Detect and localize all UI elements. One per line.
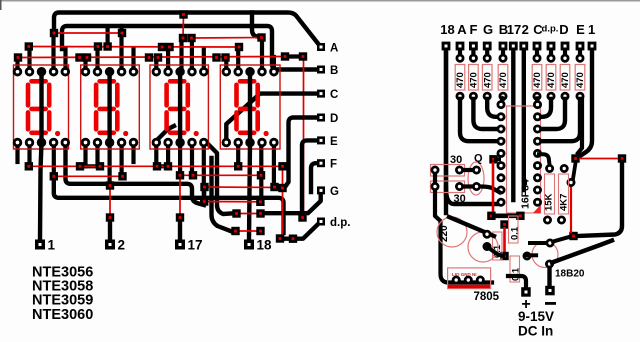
pad J13 — [14, 53, 22, 61]
pad TA — [456, 42, 465, 51]
pad d.p. — [317, 218, 325, 226]
resistor R2 470 — [469, 50, 480, 99]
pad C1 right — [456, 167, 462, 173]
wire junction up to T2 — [105, 28, 109, 47]
wire top bus A (trace T1) — [54, 13, 318, 44]
svg-text:9-15V: 9-15V — [518, 309, 554, 324]
svg-text:470: 470 — [469, 72, 480, 88]
pad J7 — [25, 42, 33, 50]
resistor R3 470 — [482, 50, 493, 99]
wire red R3 — [205, 186, 283, 189]
resistor R7 470 — [560, 50, 571, 99]
pin 10 of U1 (right) — [534, 199, 540, 205]
wire E-col branch to pad — [578, 100, 582, 153]
wire digit3 pin5 up — [202, 49, 206, 72]
wire red MCLR down — [492, 162, 495, 212]
pad 18 — [244, 240, 254, 250]
pad Pe — [200, 197, 208, 205]
wire digit1 pinB2 down — [27, 143, 31, 167]
wire ic to 15K — [539, 154, 549, 164]
svg-text:D: D — [559, 22, 568, 37]
pad K7 — [278, 162, 286, 170]
wire bus H2 — [54, 178, 284, 233]
wire digit4 pin2 up — [236, 47, 240, 72]
display DIS4 (7-segment) — [220, 65, 280, 149]
svg-text:18: 18 — [257, 238, 273, 253]
pad K5 — [164, 162, 172, 170]
pad J2 — [118, 29, 126, 37]
pad TE — [576, 42, 585, 51]
wire red R4 — [204, 201, 260, 203]
svg-text:0.1: 0.1 — [510, 226, 521, 240]
capacitor C4 0.1 — [509, 216, 519, 243]
wire digit2 pinB1 down — [83, 143, 87, 167]
wire resistor 460 to IC pin — [460, 99, 498, 141]
wire red net3 top — [29, 46, 239, 49]
svg-text:4K7: 4K7 — [559, 194, 570, 211]
pad TF — [469, 42, 478, 51]
wire digit3 pinB2 down — [166, 143, 170, 167]
pad R3n — [569, 232, 577, 240]
wire col18 to IC gnd pin — [446, 188, 497, 204]
pin 2 of U3 — [547, 240, 553, 246]
pad R2n — [618, 154, 626, 162]
svg-text:NTE3060: NTE3060 — [32, 307, 93, 323]
wire sensor pin3 to minus — [547, 268, 551, 287]
sensor U3 18B20 outline — [532, 242, 558, 268]
pin 13 of U1 (right) — [534, 163, 540, 169]
wire red R6 — [236, 230, 261, 232]
wire dc plus in — [508, 276, 526, 288]
pad Tdp — [547, 42, 556, 51]
pad Pi — [231, 227, 239, 235]
svg-text:15K: 15K — [544, 193, 555, 211]
svg-text:30: 30 — [450, 154, 462, 166]
pad J4 — [179, 34, 187, 42]
svg-text:470: 470 — [455, 72, 466, 88]
wire pad F trace — [311, 163, 318, 192]
wire pad D trace — [285, 118, 318, 188]
capacitor C6 220uF outline — [437, 217, 467, 247]
pad C — [317, 90, 325, 98]
wire caps gnd to 7805 — [435, 170, 492, 283]
wire digit3 pin1 up — [154, 58, 158, 72]
pin 6 of U1 (left) — [498, 163, 504, 169]
pin 1 of U2 — [453, 277, 459, 283]
wire crystal bottom bar — [460, 187, 500, 193]
wire to pad C through digit4 — [226, 94, 318, 143]
svg-text:470: 470 — [532, 72, 543, 88]
wire digit4 pinB5 down — [272, 143, 276, 184]
svg-text:470: 470 — [482, 72, 493, 88]
pin 12 of U1 (right) — [534, 175, 540, 181]
pad K10 — [176, 171, 184, 179]
wire digit1 pinB4 down — [52, 143, 56, 177]
svg-text:E: E — [330, 136, 338, 148]
pad TD — [561, 42, 570, 51]
wire red right pair — [579, 158, 618, 160]
wire digit2 pin4 up to T2 — [119, 26, 123, 72]
wire digit2 pinB5 down — [131, 143, 135, 163]
wire digit2 pinB2 down — [95, 143, 99, 167]
pin 3 of U1 (left) — [498, 126, 504, 132]
wire elbow to Pi — [212, 158, 231, 231]
svg-text:18: 18 — [440, 22, 454, 37]
wire digit1 pin1 up — [15, 58, 19, 72]
pad DC+ — [521, 287, 531, 297]
wire red pad17 link — [179, 175, 181, 217]
wire digit3 pin3 up — [179, 38, 183, 72]
wire digit1 pinB1 down — [15, 143, 19, 163]
svg-text:1: 1 — [588, 22, 595, 37]
pin 2 of U1 (left) — [498, 114, 504, 120]
wire digit2 center vertical — [107, 72, 111, 143]
pad TB — [499, 42, 508, 51]
pin 3 of U2 — [477, 277, 483, 283]
wire pad dp trace — [284, 222, 321, 239]
pin 15 of U1 (right) — [534, 138, 540, 144]
pad J18 — [212, 53, 220, 61]
svg-text:B: B — [330, 65, 338, 77]
pad J1 — [50, 29, 58, 37]
pin 2 of U2 — [465, 277, 471, 283]
wire digit3 pin4 up — [190, 38, 194, 72]
pad J16 — [145, 53, 153, 61]
wire red net1 top — [54, 32, 122, 34]
pad R1n — [571, 154, 579, 162]
wire resistor B to IC pin1 — [501, 99, 503, 104]
svg-text:2: 2 — [522, 22, 529, 37]
pad TG — [483, 42, 492, 51]
pad 2 — [105, 240, 115, 250]
wire resistor 473.4 to IC pin — [473, 99, 498, 129]
resistor R9 15K — [544, 165, 555, 223]
pad dp-link — [289, 235, 297, 243]
wire col2 down — [522, 50, 526, 190]
wire digit3 pinB4 down — [190, 143, 194, 176]
pad N1 — [484, 231, 490, 237]
wire short diagonal digit3 — [157, 126, 174, 140]
resistor R4 470 — [498, 50, 509, 99]
wire sensor pin2 to pad — [553, 237, 569, 242]
wire red from top pad down — [182, 15, 185, 39]
pad T1 — [588, 42, 597, 51]
display DIS1 (7-segment) — [14, 65, 69, 149]
regulator U2 7805 outline — [448, 268, 491, 289]
pad J8 — [94, 42, 102, 50]
wire link bar — [80, 164, 100, 168]
svg-text:1: 1 — [48, 238, 56, 253]
wire elbow to Pg — [208, 144, 231, 214]
wire N2 to M4 — [487, 247, 503, 257]
wire digit2 pinB4 down — [119, 143, 123, 177]
pad 1 — [35, 240, 45, 250]
wire crystal top bar — [460, 168, 477, 172]
pad B — [317, 66, 325, 74]
wire digit4 pin4 up — [260, 38, 264, 72]
wire digit4 pin5 up — [272, 57, 276, 72]
wire digit3 pinB5 down to pads — [202, 143, 206, 199]
wire red R2a — [54, 175, 123, 177]
pin 11 of U1 (right) — [534, 187, 540, 193]
svg-text:470: 470 — [546, 72, 557, 88]
svg-text:F: F — [470, 22, 478, 37]
pad K6 — [234, 162, 242, 170]
pad J3 top — [179, 10, 187, 18]
wire col18 down — [444, 50, 448, 195]
display DIS2 (7-segment) — [81, 65, 140, 149]
wire digit1 pin4 up — [51, 33, 55, 72]
wire resistor 487.2 to IC pin — [487, 99, 498, 117]
capacitor C5 0.1 — [510, 256, 520, 282]
svg-text:F: F — [330, 159, 337, 171]
op-amp U1 16F84 outline — [507, 106, 541, 213]
pin 16 of U1 (right) — [534, 126, 540, 132]
wire red pad2 link — [109, 186, 111, 218]
wire digit2 pinB3 down — [107, 143, 111, 186]
pad Pg — [232, 209, 240, 217]
pad Pf — [256, 198, 264, 206]
wire link bar2 — [157, 164, 168, 168]
wire red bus R1 — [29, 165, 283, 167]
wire resistor 565 to IC pin right — [541, 99, 565, 129]
pad 17 — [175, 240, 185, 250]
svg-text:G: G — [330, 186, 339, 198]
wire red right vertical — [570, 185, 572, 233]
svg-text:2: 2 — [118, 238, 126, 253]
wire red R5 — [237, 213, 261, 215]
pad TC — [533, 42, 542, 51]
pad J11 — [165, 43, 173, 51]
pad J5 — [187, 34, 195, 42]
display DIS3 (7-segment) — [150, 65, 208, 149]
wire pad2 riser — [108, 221, 112, 240]
pad Pa — [200, 183, 208, 191]
wire red long vertical to dp node — [303, 57, 305, 219]
pad K4 — [153, 162, 161, 170]
pin 3 of U3 — [546, 261, 552, 267]
svg-text:17: 17 — [507, 22, 521, 37]
wire pad17 riser — [178, 221, 182, 240]
wire pad down to ring — [573, 163, 576, 179]
pad Pk — [276, 234, 284, 242]
pin 17 of U1 (right) — [534, 114, 540, 120]
pad J19 — [221, 53, 229, 61]
pad Q1 top — [473, 167, 479, 173]
pad K8 — [50, 172, 58, 180]
wire pad to pin — [496, 157, 499, 161]
pad K14 — [106, 213, 114, 221]
pad D — [317, 114, 325, 122]
resistor R1 470 — [455, 50, 466, 99]
wire red net2 top — [192, 37, 262, 40]
pad DC- — [545, 286, 555, 296]
pin 9 of U1 (left) — [498, 199, 504, 205]
wire resistor C to IC pin18 — [535, 99, 540, 104]
svg-text:220: 220 — [439, 225, 450, 242]
pad Q1 bottom — [473, 183, 479, 189]
wire link pads top right — [285, 54, 303, 58]
wire digit3 center vertical — [178, 72, 182, 143]
wire pad G trace — [266, 194, 321, 213]
border top edge — [0, 0, 640, 2]
wire link M1-M2 — [494, 214, 518, 219]
wire digit4 common to pad 18 — [249, 72, 250, 240]
wire link Pa-Pe — [202, 187, 206, 202]
wire digit1 common to pad 1 — [40, 72, 42, 240]
pad J17 — [154, 53, 162, 61]
wire digit3 pinB1 down — [154, 143, 158, 167]
svg-text:30: 30 — [454, 193, 466, 205]
pad M1 — [487, 212, 495, 220]
pin 8 of U1 (left) — [498, 187, 504, 193]
pad J14 — [75, 53, 83, 61]
wire digit1 pin2 up — [27, 47, 31, 72]
wire pad E trace — [302, 140, 318, 213]
wire digit2 pin1 up — [83, 58, 87, 72]
wire bus H1 — [66, 143, 205, 206]
svg-text:LIO GND NI: LIO GND NI — [452, 272, 477, 277]
pad K13 — [106, 181, 114, 189]
svg-text:d.p.: d.p. — [542, 24, 559, 35]
pad MCLR — [489, 155, 497, 163]
resistor R10 4K7 — [558, 165, 569, 223]
wire sensor diagonal up right — [552, 241, 612, 263]
crystal Q1 outline — [468, 162, 484, 195]
label minus — [545, 302, 556, 305]
pad K3 — [96, 162, 104, 170]
pad J10 — [158, 43, 166, 51]
wire digit2 pin2 up — [95, 47, 99, 72]
svg-text:DC In: DC In — [518, 324, 553, 339]
pad Pc — [278, 184, 286, 192]
wire col1 elbow to pad — [580, 50, 592, 156]
pad ring R — [568, 179, 574, 185]
pad M4 — [500, 252, 508, 260]
pad G — [317, 186, 325, 194]
svg-text:G: G — [483, 22, 493, 37]
pad K9 — [118, 172, 126, 180]
svg-text:7805: 7805 — [474, 291, 500, 303]
pad J20 — [281, 52, 289, 60]
wire red R2b — [180, 174, 261, 176]
capacitor C7 outline — [468, 232, 498, 262]
pin 4 of U1 (left) — [498, 138, 504, 144]
svg-text:470: 470 — [575, 72, 586, 88]
svg-text:E: E — [576, 22, 585, 37]
resistor R8 470 — [575, 50, 586, 99]
pin 1 of U1 (left) — [498, 102, 504, 108]
pin 7 of U1 (left) — [498, 175, 504, 181]
pad T2 — [519, 42, 528, 51]
pad J21 — [299, 52, 307, 60]
svg-text:A: A — [457, 22, 467, 37]
svg-text:Q: Q — [474, 153, 483, 165]
svg-text:16F84: 16F84 — [520, 179, 532, 209]
svg-text:d.p.: d.p. — [330, 217, 350, 229]
resistor R5 470 — [532, 50, 543, 99]
pad F — [317, 159, 325, 167]
pad Pd — [298, 213, 306, 221]
pin 18 of U1 (right) — [534, 102, 540, 108]
pad K15 — [176, 213, 184, 221]
wire digit4 pinB2 down — [236, 143, 240, 167]
pad M2 — [516, 212, 524, 220]
pad C2 left — [432, 183, 438, 189]
wire digit3 pin2 up — [166, 47, 170, 72]
svg-text:18B20: 18B20 — [555, 269, 585, 280]
pad A — [317, 43, 325, 51]
pad M3 — [500, 220, 508, 228]
pad T17 — [509, 42, 518, 51]
wire digit2 pin5 up — [131, 49, 135, 72]
wire sensor pin2 lead — [530, 241, 545, 245]
wire digit4 pinB4 down — [259, 143, 263, 200]
wire diagonal across cap — [449, 217, 494, 236]
capacitor C2 30pF — [431, 181, 465, 193]
svg-text:17: 17 — [188, 238, 203, 253]
wire col18 lower — [444, 50, 448, 213]
wire digit1 pin5 up — [63, 49, 67, 72]
pad E — [317, 136, 325, 144]
svg-text:D: D — [330, 113, 338, 125]
wire red net4 top — [18, 57, 285, 58]
pad J9 — [103, 42, 111, 50]
pin 5 of U1 (left) — [498, 150, 504, 156]
pad J12 — [235, 43, 243, 51]
pad K2 — [76, 162, 84, 170]
wire sensor link — [526, 253, 537, 257]
wire digit3 pinB3 down — [178, 143, 182, 176]
wire top bus B (trace T2) — [62, 26, 318, 70]
svg-text:470: 470 — [560, 72, 571, 88]
pad Ph — [256, 209, 264, 217]
pin 1 of U3 — [524, 253, 530, 259]
wire resistor 580 to IC pin right — [541, 99, 580, 141]
wire col17 down — [511, 50, 515, 200]
wire resistor 551 to IC pin right — [541, 99, 551, 117]
svg-text:A: A — [330, 43, 338, 55]
pad K1 — [25, 162, 33, 170]
capacitor C3 0.1 — [493, 232, 503, 260]
svg-text:C: C — [330, 89, 338, 101]
resistor R6 470 — [546, 50, 557, 99]
pad C2 right — [456, 183, 462, 189]
pad Pj — [256, 227, 264, 235]
wire right edge elbow down — [578, 162, 622, 236]
pad J6 — [257, 33, 265, 41]
pad Pb — [270, 183, 278, 191]
pad K12 — [257, 171, 265, 179]
wire branch to pad from T1 — [252, 13, 260, 38]
wire digit4 pin1 up — [224, 58, 228, 72]
wire red M3 down — [503, 227, 506, 253]
wire red vertical to dp node — [282, 166, 284, 238]
pad N2 — [484, 243, 490, 249]
pad K11 — [189, 171, 197, 179]
svg-text:470: 470 — [498, 72, 509, 88]
pad C1 left — [432, 167, 438, 173]
pad T18 — [442, 42, 451, 51]
wire red 7805 tab — [448, 285, 490, 288]
pin 14 of U1 (right) — [534, 150, 540, 156]
pad J15 — [83, 53, 91, 61]
capacitor C1 30pF — [431, 165, 465, 177]
